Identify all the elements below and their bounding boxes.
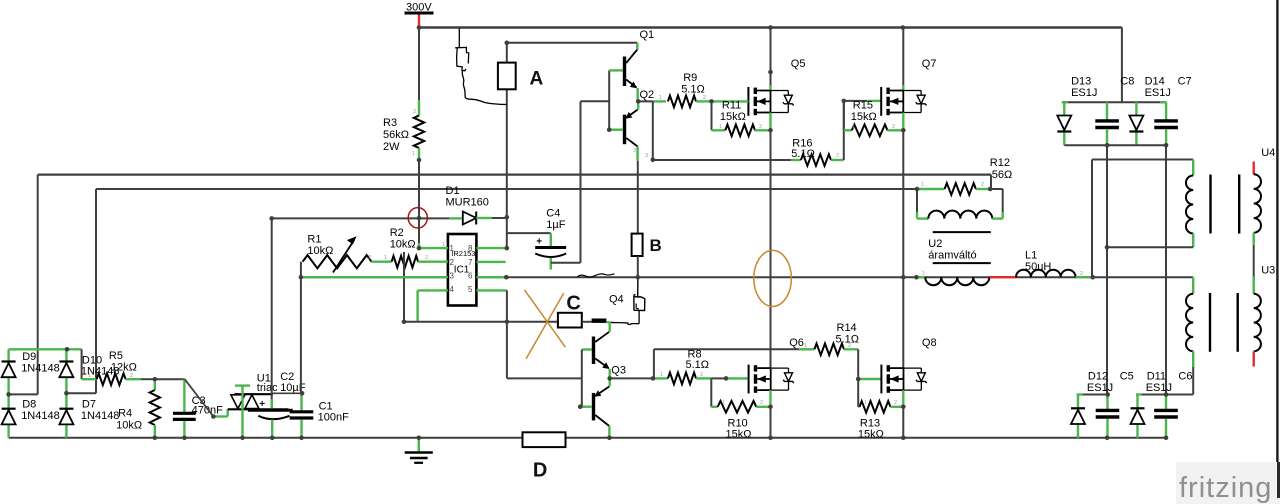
svg-text:2: 2 (894, 400, 897, 406)
svg-text:R12: R12 (990, 157, 1010, 169)
transistor Q8 (MOSFET) (881, 365, 926, 394)
wire D13-C7 bottom bus (1064, 144, 1166, 146)
wire bridge top bus (9, 348, 82, 350)
svg-text:U3: U3 (1261, 265, 1275, 277)
svg-text:15kΩ: 15kΩ (720, 111, 746, 123)
wire Q6 source down (769, 390, 771, 407)
capacitor C4 1uF (550, 233, 552, 246)
resistor R4 10k (154, 379, 156, 390)
svg-text:1: 1 (795, 153, 798, 159)
wire Q3 output to R8 (610, 377, 653, 379)
wire half-bridge1 mid vertical (770, 130, 772, 368)
transistor Q1 (609, 69, 623, 71)
wire Q8 source down (902, 390, 904, 407)
capacitor C5 (1106, 395, 1108, 410)
wire ground rail (9, 437, 1166, 439)
svg-text:3: 3 (645, 153, 648, 159)
wire R12 left to U2 winding (916, 189, 918, 212)
svg-text:3: 3 (633, 148, 636, 154)
svg-text:B: B (650, 236, 662, 255)
svg-text:A: A (530, 69, 544, 90)
svg-text:2: 2 (836, 153, 839, 159)
svg-text:470nF: 470nF (192, 405, 223, 417)
svg-text:Q4: Q4 (609, 294, 624, 306)
svg-text:U2: U2 (928, 238, 942, 250)
capacitor C2 10uF (248, 409, 293, 412)
wire Q5 source to mid node (769, 113, 771, 131)
annotation box B (632, 234, 643, 256)
svg-text:1µF: 1µF (546, 219, 565, 231)
wire R1 left drop to C1 (300, 277, 302, 393)
svg-text:2: 2 (700, 372, 703, 378)
resistor R16 (791, 159, 801, 161)
wire R14 row (654, 348, 799, 350)
wire R13 riser (857, 379, 859, 407)
svg-text:2: 2 (1080, 271, 1083, 277)
transistor Q3 (upper NPN) (582, 348, 592, 350)
svg-text:MUR160: MUR160 (446, 197, 489, 209)
wire Q6 drain stub (769, 367, 771, 370)
svg-text:1: 1 (864, 400, 867, 406)
svg-text:300V: 300V (406, 2, 432, 14)
svg-text:10kΩ: 10kΩ (307, 245, 333, 257)
svg-text:ES1J: ES1J (1071, 87, 1097, 99)
inductor L1 50uH (1016, 270, 1076, 277)
svg-text:2: 2 (760, 400, 763, 406)
node 300V red stub (418, 13, 420, 28)
annotation hand-drawn probe at top (458, 28, 460, 47)
svg-text:ES1J: ES1J (1087, 382, 1113, 394)
svg-text:2: 2 (130, 373, 133, 379)
ground symbol (418, 438, 420, 452)
transformer U4 primary (1192, 160, 1194, 176)
svg-text:2: 2 (892, 124, 895, 130)
svg-text:D7: D7 (82, 399, 96, 411)
svg-text:2: 2 (703, 95, 706, 101)
wire mystery stub above pin5 route (403, 252, 405, 322)
svg-text:1: 1 (722, 400, 725, 406)
svg-text:2: 2 (759, 124, 762, 130)
wire diagonal to triac gate (185, 379, 214, 416)
wire IC pin5 stub (476, 289, 507, 291)
wire R12 right to U2 winding (990, 188, 1003, 190)
resistor R13 15k (858, 406, 859, 408)
resistor R1 potentiometer (303, 255, 372, 268)
svg-text:1: 1 (384, 255, 387, 261)
transistor Q6 (MOSFET) (749, 365, 794, 394)
transformer U2 core (933, 231, 991, 233)
wire top rail to A-line junction (506, 28, 508, 43)
svg-text:2: 2 (981, 182, 984, 188)
svg-text:Q7: Q7 (922, 58, 937, 70)
annotation patch bar (592, 319, 607, 323)
svg-text:R1: R1 (307, 234, 321, 246)
svg-text:1: 1 (922, 271, 925, 277)
diode D14 ES1J (1135, 102, 1137, 145)
wire driver output to R9 (638, 100, 653, 102)
svg-text:1: 1 (660, 372, 663, 378)
svg-text:D11: D11 (1147, 371, 1166, 383)
annotation box C (558, 313, 582, 328)
IC U1 body IR2153 (448, 234, 477, 306)
svg-text:1: 1 (659, 95, 662, 101)
diode D7 1N4148 (65, 393, 67, 438)
svg-text:1: 1 (719, 124, 722, 130)
svg-text:5.1Ω: 5.1Ω (681, 84, 705, 96)
wire R16 riser to Q7 gate (843, 101, 845, 160)
svg-text:1: 1 (410, 242, 413, 248)
svg-text:10kΩ: 10kΩ (116, 420, 142, 432)
capacitor C3 470nF (183, 379, 185, 412)
svg-text:R15: R15 (853, 100, 873, 112)
wire B box to VS bus (637, 256, 639, 277)
wire 300V top rail (419, 26, 1122, 28)
svg-text:1: 1 (921, 182, 924, 188)
resistor R10 15k (711, 406, 717, 408)
svg-text:D12: D12 (1088, 371, 1108, 383)
fritzing watermark (1176, 462, 1280, 504)
wire driver output drop to R16 row (652, 101, 654, 160)
svg-text:1: 1 (450, 244, 455, 253)
wire VCC node down to C2 (271, 218, 273, 408)
wire triac gate stub (213, 415, 227, 417)
wire rail1 left drop to D9/D8 midpoint (37, 175, 39, 395)
wire A-line vertical (506, 43, 508, 217)
svg-text:15kΩ: 15kΩ (726, 428, 752, 440)
wire Q1/Q2 base link (608, 70, 610, 129)
wire pin4 row to C box (404, 321, 558, 323)
annotation box A (498, 63, 516, 90)
wire VS output bus (301, 276, 1193, 278)
transistor Q7 (MOSFET) (881, 87, 926, 116)
transformer U3 core (1209, 293, 1211, 352)
wire VCC node down to IC pin1 (418, 218, 420, 243)
wire C7 bus drop (to C6) (1165, 145, 1167, 394)
wire R3 to VCC node (418, 158, 420, 218)
svg-text:R2: R2 (390, 227, 404, 239)
capacitor C1 100nF (300, 393, 302, 410)
wire unrouted red segment (989, 276, 1016, 278)
svg-text:R9: R9 (683, 72, 697, 84)
resistor R9 (668, 96, 696, 108)
wire driver-base horizontal (581, 100, 610, 102)
svg-text:C6: C6 (1178, 371, 1192, 383)
annotation box D (523, 432, 566, 447)
wire bridge plus drop to R5 (81, 349, 83, 379)
wire IC pin1 feed (419, 247, 448, 249)
wire C4 bottom to driver-base line (551, 262, 581, 264)
wire Q5 drain from top rail (770, 28, 772, 86)
svg-text:1: 1 (412, 151, 415, 157)
diode D13 ES1J (1063, 102, 1065, 145)
wire right border (1276, 0, 1278, 497)
diode D12 ES1J (1077, 395, 1079, 438)
wire VS frame to U4 primary top (1092, 159, 1193, 161)
svg-text:2: 2 (848, 343, 851, 349)
resistor R15 15k (844, 129, 852, 131)
wire Q2 collector to B box (637, 161, 639, 234)
svg-text:7: 7 (468, 258, 473, 267)
svg-text:2W: 2W (383, 141, 400, 153)
svg-text:C8: C8 (1120, 76, 1134, 88)
svg-text:C4: C4 (546, 208, 560, 220)
wire Q3 base link (581, 350, 583, 407)
svg-text:100nF: 100nF (318, 412, 349, 424)
svg-text:2: 2 (450, 258, 455, 267)
svg-text:D: D (533, 460, 547, 482)
annotation red circle on VCC junction (408, 208, 427, 228)
svg-text:1: 1 (804, 343, 807, 349)
transistor Q4 position (lower PNP) (609, 378, 611, 386)
transformer U3 secondary (1254, 294, 1261, 352)
svg-text:12kΩ: 12kΩ (111, 362, 137, 374)
svg-text:R5: R5 (109, 350, 123, 362)
wire Q4 blob to VS bus (637, 277, 639, 296)
svg-text:5.1Ω: 5.1Ω (686, 359, 710, 371)
transformer U2 primary winding (916, 276, 925, 278)
wire Q3 output riser to R14 row (653, 349, 655, 378)
transistor Q5 (MOSFET) (748, 87, 793, 116)
svg-text:Q6: Q6 (789, 337, 804, 349)
svg-text:C5: C5 (1120, 371, 1134, 383)
svg-text:1N4148: 1N4148 (21, 410, 60, 422)
wire R3 top feed (418, 28, 420, 101)
wire IC pin2 stub (439, 261, 448, 263)
wire R10 riser (710, 378, 712, 406)
resistor R14 5.1 (799, 348, 815, 350)
wire C4 top connection (507, 232, 551, 234)
transistor Q2 (637, 101, 639, 109)
svg-text:fritzing: fritzing (1179, 472, 1272, 504)
svg-text:5: 5 (468, 285, 473, 294)
capacitor C8 (1106, 102, 1108, 119)
svg-text:4: 4 (450, 285, 455, 294)
wire rail1 drop to R12 right (990, 175, 992, 189)
svg-text:áramváltó: áramváltó (928, 250, 976, 262)
transformer U2 secondary winding (917, 217, 928, 219)
wire C8 bus drop (to U4 primary and C5) (1106, 145, 1108, 394)
wire rail1 (bridge AC1) (38, 174, 991, 176)
resistor R5 12k (82, 378, 97, 380)
transformer U4 core (1209, 175, 1211, 234)
wire Q7 source to mid node (902, 113, 904, 131)
wire R15 riser (843, 101, 845, 130)
wire U3 primary bottom to D11/C6 bus (1192, 367, 1194, 395)
svg-text:2: 2 (413, 109, 416, 115)
svg-text:Q8: Q8 (922, 337, 937, 349)
svg-text:R14: R14 (837, 322, 857, 334)
svg-text:R3: R3 (383, 117, 397, 129)
wire driver-base vertical (580, 101, 582, 262)
capacitor C7 (1165, 102, 1167, 119)
wire D13-C7 top bus (1062, 101, 1167, 103)
svg-text:2: 2 (368, 255, 371, 261)
svg-text:50uH: 50uH (1025, 261, 1051, 273)
annotation hand-drawn transistor Q4 (638, 310, 640, 323)
wire rail2 left drop to D10/D7 midpoint (95, 189, 97, 393)
wire IC pin6 stub (476, 276, 506, 278)
svg-text:C7: C7 (1178, 76, 1192, 88)
transformer U4 secondary (1252, 162, 1254, 175)
wire R1 left vertical (300, 262, 302, 278)
annotation hand-drawn wire to A line (462, 71, 507, 105)
svg-text:2: 2 (425, 255, 428, 261)
wire VCC row from C2 node to D1 (272, 217, 449, 219)
svg-text:C: C (566, 293, 580, 315)
wire half-bridge2 mid vertical (902, 130, 904, 368)
wire A-line horizontal to Q1 collector (507, 42, 638, 44)
wire pin8 node vertical (506, 217, 508, 248)
wire U4 secondary to U3 secondary (1253, 245, 1255, 277)
wire D12-C5 top bus (1077, 394, 1108, 396)
diode D1 MUR160 (463, 212, 476, 225)
svg-text:ES1J: ES1J (1145, 87, 1171, 99)
diode D11 ES1J (1136, 395, 1138, 438)
annotation orange ellipse on bus crossing (754, 250, 792, 306)
junction dots (417, 25, 422, 30)
svg-text:15kΩ: 15kΩ (858, 428, 884, 440)
svg-text:1: 1 (852, 124, 855, 130)
wire IC pin8 stub (476, 247, 506, 249)
svg-text:D8: D8 (22, 399, 36, 411)
wire C box to patch bar (582, 321, 592, 323)
svg-text:Q5: Q5 (791, 58, 806, 70)
svg-text:D9: D9 (22, 351, 36, 363)
svg-text:R4: R4 (118, 408, 132, 420)
wire Q5 gate stub (712, 100, 749, 102)
wire R14 riser to Q8 gate (857, 349, 859, 379)
triac U1 (234, 393, 273, 395)
svg-text:+: + (536, 237, 542, 248)
annotation hand squiggle on VS bus (578, 274, 615, 277)
svg-text:D14: D14 (1145, 76, 1165, 88)
wire IC pin4 loop (418, 289, 448, 291)
svg-text:+: + (259, 399, 265, 410)
svg-text:Q2: Q2 (640, 89, 655, 101)
annotation hand-drawn link to Q4 (606, 321, 609, 323)
resistor R2 10k (392, 256, 418, 268)
wire D11-C6 top bus (1136, 394, 1193, 396)
svg-text:D1: D1 (446, 185, 460, 197)
diode D9 1N4148 (7, 349, 9, 394)
wire rail2 (bridge AC2) (96, 188, 917, 190)
capacitor C6 (1165, 395, 1167, 410)
pin number ticks (88, 95, 1083, 406)
svg-text:1: 1 (442, 242, 445, 248)
svg-text:56Ω: 56Ω (992, 169, 1012, 181)
resistor R8 (668, 373, 696, 385)
svg-text:Q3: Q3 (611, 365, 626, 377)
wire IC pin3 feed (301, 276, 448, 278)
svg-text:triac: triac (257, 382, 278, 394)
svg-text:1N4148: 1N4148 (81, 410, 120, 422)
svg-text:6: 6 (468, 272, 473, 281)
wire U4 primary bottom return (1107, 246, 1193, 248)
wire pin5 drop to low-side drivers (506, 290, 508, 378)
diode D10 1N4148 (65, 349, 67, 393)
transformer U3 primary (1192, 277, 1194, 294)
wire IC pin7 stub (476, 261, 505, 263)
svg-text:1: 1 (88, 373, 91, 379)
wire Q7 drain from top rail (902, 28, 904, 86)
svg-text:56kΩ: 56kΩ (383, 129, 409, 141)
wire R16 row (653, 159, 791, 161)
wire zener node (155, 378, 185, 380)
svg-text:15kΩ: 15kΩ (851, 111, 877, 123)
svg-text:8: 8 (468, 244, 473, 253)
node 300V terminal bar (405, 12, 434, 15)
wire top rail corner down to C8 bus (1121, 28, 1123, 103)
svg-text:D13: D13 (1071, 76, 1091, 88)
svg-text:1N4148: 1N4148 (21, 363, 60, 375)
resistor R12 56 (917, 188, 945, 190)
svg-text:3: 3 (450, 272, 455, 281)
svg-text:Q1: Q1 (640, 29, 655, 41)
svg-text:U4: U4 (1261, 147, 1275, 159)
svg-text:R11: R11 (722, 100, 741, 112)
svg-text:L1: L1 (1025, 250, 1037, 262)
diode D8 1N4148 (7, 394, 9, 437)
resistor R11 15k (711, 101, 713, 130)
annotation orange X (524, 290, 565, 347)
svg-text:ES1J: ES1J (1146, 382, 1172, 394)
resistor R3 (414, 116, 424, 148)
wire link C2 to C1 node (272, 392, 301, 394)
